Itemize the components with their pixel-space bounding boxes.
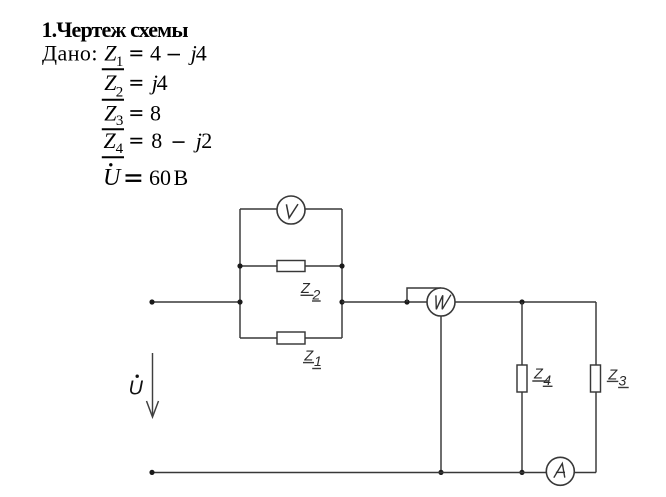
wire: left source lead bbox=[152, 301, 240, 303]
node: junction Z4 top bbox=[519, 299, 524, 304]
arrow: source voltage direction bbox=[147, 353, 159, 417]
label U with dot bbox=[129, 375, 144, 400]
equation Z2 = j4 bbox=[102, 70, 168, 101]
equation Z1 = 4 - j4 bbox=[102, 41, 207, 71]
wire: wattmeter to right corner bbox=[455, 301, 596, 303]
wire: Z4 leg bbox=[521, 302, 523, 473]
equation Z4 = 8 - j2 bbox=[102, 128, 213, 157]
wire: voltmeter branch top bbox=[240, 208, 342, 210]
node: left top terminal bbox=[149, 299, 154, 304]
node: junction left main bbox=[237, 299, 242, 304]
svg-text:4: 4 bbox=[543, 372, 551, 388]
given text block bbox=[0, 0, 666, 200]
wire: Z1 branch bbox=[240, 337, 342, 339]
wire: left rail of parallel group bbox=[239, 209, 241, 338]
label Z1 bbox=[303, 349, 322, 370]
svg-text:U: U bbox=[129, 378, 144, 400]
wire: ammeter to right corner bbox=[574, 472, 596, 474]
node: junction left Z2 bbox=[237, 263, 242, 268]
svg-text:Z: Z bbox=[533, 366, 544, 382]
node: junction right Z2 bbox=[339, 263, 344, 268]
node: junction Z4 bottom bbox=[519, 470, 524, 475]
resistor Z3 bbox=[591, 365, 601, 392]
node: wattmeter tap bbox=[404, 299, 409, 304]
wattmeter W bbox=[427, 288, 455, 316]
node: junction right main bbox=[339, 299, 344, 304]
ammeter A bbox=[546, 457, 574, 485]
resistor Z2 bbox=[277, 261, 305, 272]
wire: Z2 branch bbox=[240, 265, 342, 267]
wire: right leg with Z3 bbox=[595, 302, 597, 473]
label Дано: bbox=[42, 41, 98, 66]
node: left bottom terminal bbox=[149, 470, 154, 475]
equation U = 60 V bbox=[103, 163, 188, 191]
label Z2 bbox=[300, 281, 321, 302]
label Z3 bbox=[607, 367, 629, 388]
title bbox=[42, 17, 189, 42]
svg-text:3: 3 bbox=[619, 373, 627, 389]
wire: main to wattmeter bbox=[342, 301, 427, 303]
resistor Z1 bbox=[277, 332, 305, 344]
node: junction W bottom bbox=[438, 470, 443, 475]
resistor Z4 bbox=[517, 365, 527, 392]
wire: bottom rail bbox=[152, 472, 546, 474]
voltmeter V bbox=[277, 196, 305, 224]
equation Z3 = 8 bbox=[102, 100, 161, 129]
wire: wattmeter current coil down lead bbox=[440, 316, 442, 473]
svg-text:2: 2 bbox=[312, 286, 321, 302]
wire: wattmeter voltage tap bracket bbox=[407, 288, 441, 302]
label Z4 bbox=[532, 366, 552, 388]
wire: right rail of parallel group bbox=[341, 209, 343, 338]
svg-text:1: 1 bbox=[314, 353, 322, 369]
